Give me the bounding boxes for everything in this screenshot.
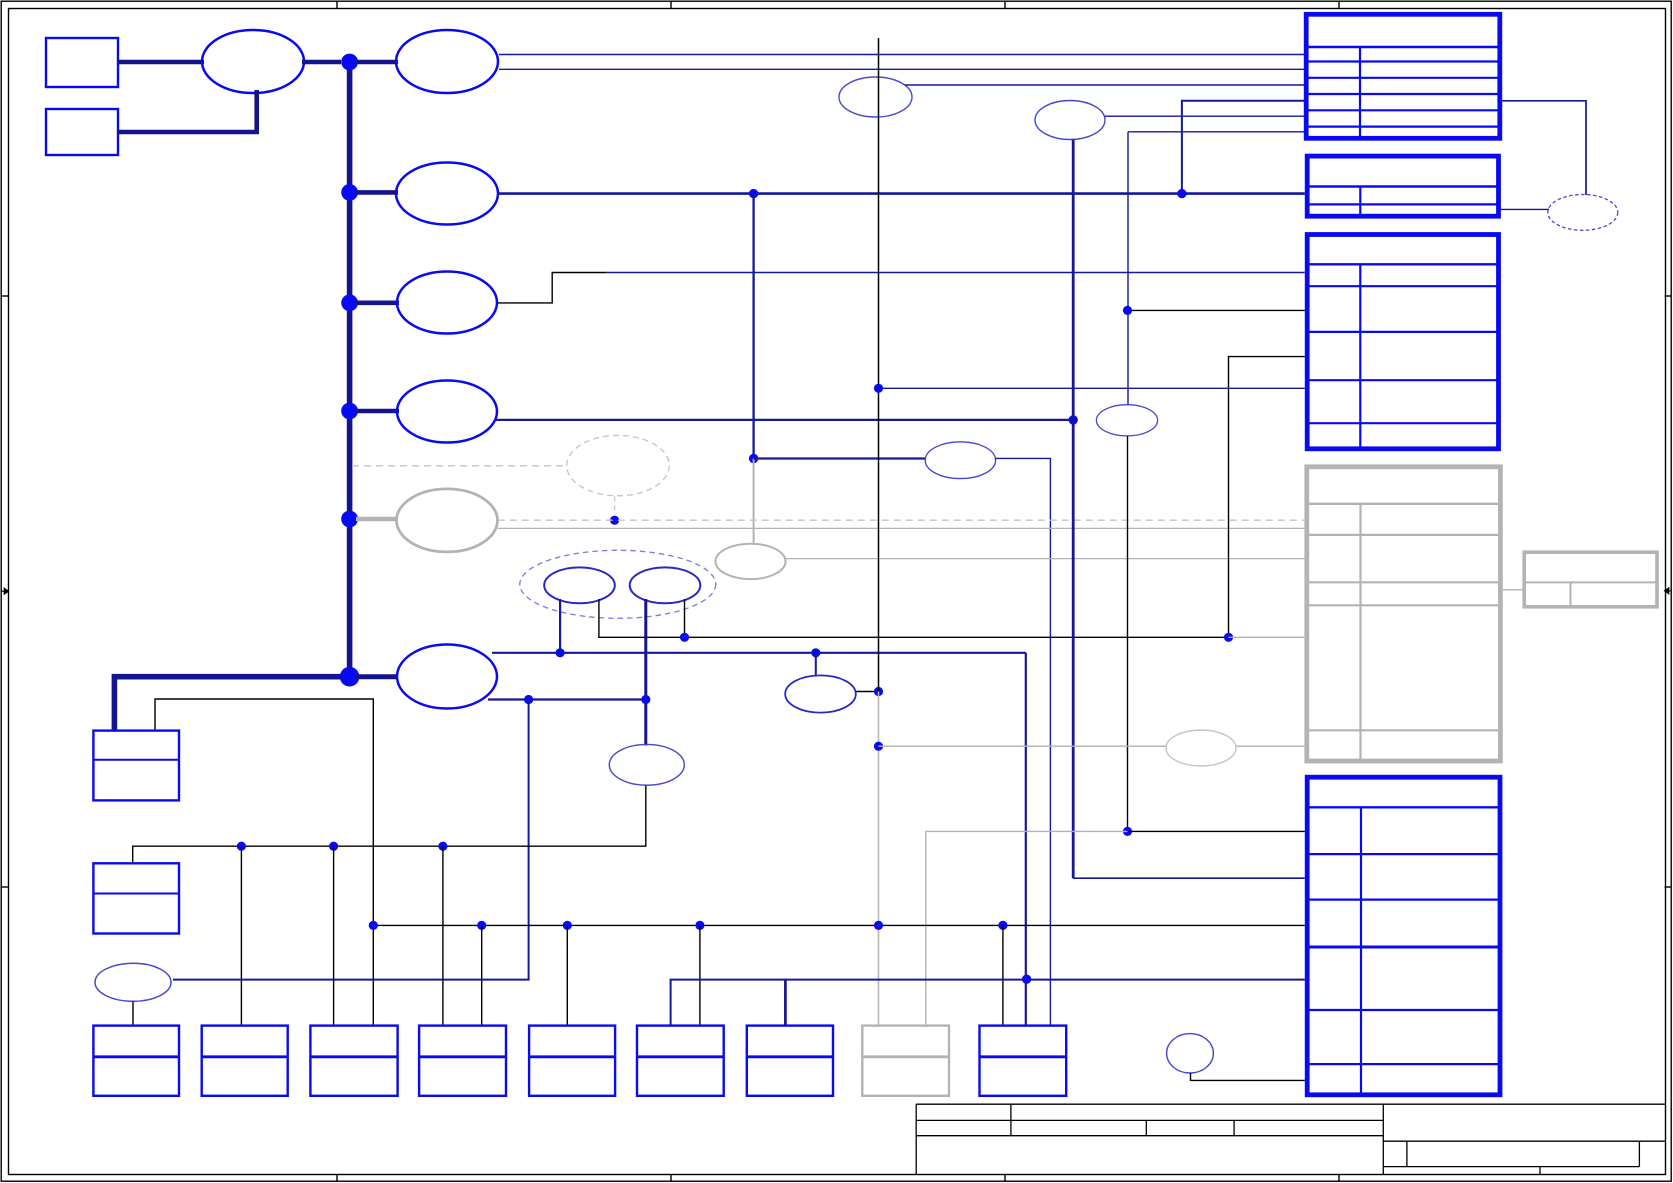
ghost label box (gray)	[1524, 552, 1657, 607]
ghost vertical harness line lower	[878, 692, 880, 1026]
battery feed rectangle B1	[46, 38, 118, 87]
node N6	[340, 667, 360, 687]
splice S3	[396, 163, 498, 225]
wire S2 to T1 pin row 1	[499, 54, 1304, 56]
splice S13	[925, 442, 995, 479]
ghost wire J11 to ghost splice S21	[879, 745, 1167, 747]
black vertical below S20	[1127, 436, 1129, 831]
black drop J22 to connector C6	[699, 925, 701, 1025]
black drop J16 to connector C2	[240, 846, 242, 1025]
black drop J24 to connector C7	[1002, 925, 1004, 1025]
black wire J14 to table T5 row 1	[1128, 830, 1305, 832]
wire J4 to splice S13	[754, 457, 926, 459]
wire S4 to table T3 row 1	[607, 272, 1305, 274]
frame centering arrow right	[1665, 588, 1672, 594]
node N2	[341, 184, 358, 201]
node J15	[1224, 633, 1233, 642]
ground block G2 divider	[93, 893, 179, 895]
node J12 wire to T3 row 4	[879, 387, 1305, 389]
node J12	[874, 384, 883, 393]
connector C1	[93, 1026, 179, 1096]
node J18	[438, 842, 447, 851]
splice S11 (dashed)	[1548, 195, 1618, 231]
node J24	[998, 921, 1007, 930]
node J6	[556, 648, 565, 657]
node J20	[477, 921, 486, 930]
wire S7 lower	[488, 698, 646, 700]
wire S9 to T1 pin row 5	[1105, 115, 1304, 117]
black drop J21 to connector C5	[566, 925, 568, 1025]
node N3	[341, 294, 358, 311]
frame centering arrow left	[1, 588, 9, 594]
wire drop to connector C7	[1025, 653, 1027, 1026]
black stub S18 to vertical	[856, 691, 879, 693]
ghost dashed splice S14	[567, 435, 670, 495]
connector pin table T1	[1306, 14, 1500, 138]
node J3	[1069, 415, 1078, 424]
ghost wire S12 to gray table T4	[786, 558, 1305, 560]
main vertical bus	[347, 62, 353, 677]
splice S19	[95, 963, 171, 1001]
wire S5 to node J3	[495, 419, 1073, 421]
bus wire to ground G1	[114, 677, 341, 732]
black distribution run to table T5 row 3	[373, 924, 1305, 926]
node J23	[874, 921, 883, 930]
wire J9 down to ellipse S19 run	[173, 700, 529, 980]
node N1	[341, 54, 358, 71]
ghost wire S6 to gray table T4	[498, 527, 1305, 529]
wire S2 to T1 pin row 2	[499, 68, 1304, 70]
node J14	[1123, 827, 1132, 836]
connector C4	[419, 1026, 506, 1096]
ghost dashed wire bus to S14	[352, 465, 567, 467]
title block	[916, 1104, 1665, 1174]
wire vertical x1128 upper	[1127, 132, 1129, 405]
black drop J17 to connector C3	[333, 846, 335, 1025]
node J22	[695, 921, 704, 930]
bus wire B2 to splice S1	[118, 90, 257, 132]
splice S2	[396, 30, 498, 93]
ghost splice S6 (gray)	[397, 489, 498, 552]
bus stub N2 to splice S3	[356, 190, 398, 195]
node J17	[329, 842, 338, 851]
black vertical harness line	[878, 38, 880, 692]
wire elbow to table T5 row 2	[1073, 877, 1305, 879]
splice S15	[544, 567, 615, 603]
black drop J20 to connector C4	[481, 925, 483, 1025]
black stub S16 to J7	[684, 599, 686, 637]
node J11	[874, 742, 883, 751]
battery feed rectangle B2	[46, 109, 118, 155]
wire S16 down to splice S17	[644, 599, 647, 746]
bus stub N5 to ghost splice S6 (gray)	[356, 517, 398, 522]
ghost splice S8	[839, 77, 912, 117]
black elbow to table T3 row 3	[1229, 357, 1305, 638]
node J2 on S3 feed	[749, 189, 758, 198]
node J4	[749, 454, 758, 463]
connector C3	[310, 1026, 397, 1096]
ghost splice S20	[1096, 405, 1157, 436]
ground block G1 divider	[93, 759, 179, 761]
bus stub N4 to splice S5	[356, 409, 399, 414]
wire x1128 to table T3 row 2	[1128, 309, 1305, 311]
bus wire S1 to node N1	[302, 60, 341, 65]
splice S4	[397, 272, 497, 334]
ghost dashed wire S6 to gray table T4	[498, 519, 1305, 521]
splice S18	[785, 675, 856, 712]
ghost splice S12 (gray)	[716, 544, 786, 579]
node J1 on S3 feed	[1177, 189, 1186, 198]
node N5	[341, 511, 358, 528]
connector pin table T3	[1307, 235, 1498, 449]
stub J8 to splice S18	[815, 653, 817, 677]
black drop J18 to connector C4	[442, 846, 444, 1025]
ghost wire J15 to gray table T4	[1229, 636, 1305, 638]
stub drop to connector C6b	[784, 980, 787, 1026]
splice S7	[397, 645, 497, 709]
node N4	[341, 403, 358, 420]
wire S13 to connector C7 drop	[996, 458, 1051, 1026]
ghost wire T4 to label box	[1503, 589, 1523, 591]
node J26	[874, 687, 883, 696]
ground block G2	[93, 863, 179, 933]
node J10	[641, 695, 650, 704]
wire S4 black segment	[497, 273, 607, 303]
wire S7 upper to connector drops	[492, 652, 1026, 654]
black wire S22 to table T5 row 6	[1191, 1073, 1305, 1080]
wire S3 to connector table T2	[498, 192, 1305, 195]
wire T1 right edge to splice S10	[1502, 101, 1586, 195]
black wire S15 to J7 elbow	[599, 599, 1229, 637]
node J13	[1123, 306, 1132, 315]
node J19	[369, 921, 378, 930]
wire S9 down to table T5 row 2	[1072, 140, 1075, 879]
bus wire B1 to splice S1	[118, 60, 204, 65]
splice S16	[630, 567, 701, 603]
wire elbow to T1 pin row 6	[1128, 131, 1304, 133]
connector C7	[980, 1026, 1067, 1096]
bus stub N6 to splice S7	[356, 674, 398, 679]
node J9	[524, 695, 533, 704]
connector C8 (gray ghost)	[862, 1026, 949, 1096]
node J7	[680, 633, 689, 642]
black wire S17 distribution run	[133, 786, 646, 864]
connector C5	[529, 1026, 615, 1096]
node J16	[237, 842, 246, 851]
splice S22 (circle)	[1167, 1034, 1214, 1073]
node J5 on dashed net	[610, 516, 619, 525]
ghost splice S9	[1035, 101, 1105, 140]
ghost dashed stub S14 bottom	[614, 496, 616, 514]
splice S5	[397, 381, 497, 443]
wire junction J1 to T1 pin row 4	[1182, 101, 1306, 194]
connector pin table T5	[1307, 777, 1500, 1095]
node J8	[811, 648, 820, 657]
splice S17	[609, 744, 684, 785]
bus stub N3 to splice S4	[356, 300, 399, 305]
wire T2 to splice S11	[1501, 208, 1549, 210]
connector C6	[637, 1026, 724, 1096]
black stub S19 to connector C1	[132, 1002, 134, 1026]
connector C2	[202, 1026, 288, 1096]
wire S15 down to node J6	[559, 599, 561, 653]
splice S1	[202, 30, 304, 93]
connector pin table T2	[1307, 156, 1498, 216]
ghost pin table T4 (gray)	[1307, 467, 1501, 761]
ground block G1	[93, 731, 179, 801]
connector C6b	[747, 1026, 833, 1096]
node J25	[1022, 975, 1031, 984]
ghost splice S21 (gray)	[1166, 730, 1236, 766]
ghost elbow wire to gray connector C8	[926, 831, 1128, 1026]
black loop G1 to connector C3	[155, 699, 373, 1026]
node J21	[563, 921, 572, 930]
wire run to table T5 row 4	[671, 980, 1305, 1026]
ghost wire S21 to gray table T4	[1237, 745, 1305, 747]
wire J2 down to J4	[752, 194, 754, 459]
bus wire N1 to splice S2	[356, 60, 398, 65]
ghost wire J4 to ghost splice S12	[753, 459, 755, 546]
dashed group ellipse	[520, 550, 716, 618]
wire S8 to T1 pin row 3	[905, 84, 1304, 86]
